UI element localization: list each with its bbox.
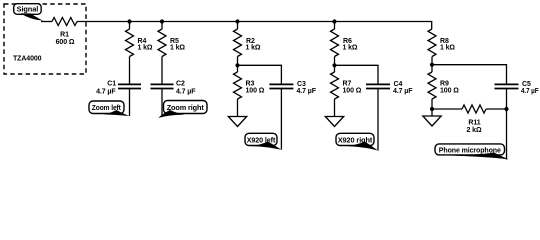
svg-text:600 Ω: 600 Ω <box>56 39 75 46</box>
svg-text:4.7 µF: 4.7 µF <box>176 89 196 96</box>
junction node on rail at R2 branch <box>235 19 239 23</box>
resistor R2 1 kOhm <box>234 29 261 57</box>
svg-text:100 Ω: 100 Ω <box>343 88 362 95</box>
junction node on rail at R6 branch <box>332 19 336 23</box>
wire: R2 to R3 junction <box>237 57 239 73</box>
node Zoom left (callout label) <box>89 101 130 116</box>
svg-text:4.7 µF: 4.7 µF <box>393 88 413 95</box>
resistor R1 600 ohm <box>52 18 77 47</box>
wire: R4 to C1 <box>129 57 131 85</box>
svg-text:Signal: Signal <box>17 5 39 14</box>
svg-text:100 Ω: 100 Ω <box>246 88 265 95</box>
wire: junction to C3 branch <box>238 65 282 84</box>
ground symbol below R9 <box>423 116 441 126</box>
node Zoom right (callout label) <box>158 101 207 118</box>
resistor R11 2 kOhm <box>462 105 486 134</box>
junction node R2/R3/C3 <box>235 63 239 67</box>
wire: rail to R5 <box>161 22 163 30</box>
junction node on rail at R4 branch <box>127 19 131 23</box>
wire: R9 to ground <box>431 99 433 117</box>
resistor R5 1 kOhm <box>158 29 185 57</box>
capacitor C3 4.7 uF <box>269 81 316 95</box>
svg-text:R9: R9 <box>440 81 449 88</box>
node X920 right (callout label) <box>336 133 378 150</box>
svg-text:1 kΩ: 1 kΩ <box>440 45 455 52</box>
svg-text:1 kΩ: 1 kΩ <box>246 45 261 52</box>
wire: R3 to ground <box>237 99 239 117</box>
svg-text:C3: C3 <box>297 81 306 88</box>
ground symbol below R7 <box>325 117 343 127</box>
wire: R9 junction to R11 <box>432 108 462 110</box>
resistor R3 100 Ohm <box>234 72 265 99</box>
svg-text:X920 right: X920 right <box>338 135 373 144</box>
svg-text:C2: C2 <box>176 80 185 87</box>
svg-text:2 kΩ: 2 kΩ <box>467 127 482 134</box>
svg-text:1 kΩ: 1 kΩ <box>343 45 358 52</box>
node Signal (callout label) <box>14 4 43 21</box>
wire: junction to C4 branch <box>335 65 379 84</box>
resistor R9 100 Ohm <box>428 72 459 99</box>
wire: top rail from R1 to R8 branch corner <box>77 22 432 30</box>
junction node R8/R9/C5 <box>430 63 434 67</box>
wire: R6 to R7 junction <box>334 57 336 73</box>
svg-text:TZA4000: TZA4000 <box>13 56 42 63</box>
wire: C5 down to Phone microphone terminal <box>506 89 508 160</box>
svg-text:R1: R1 <box>60 31 69 38</box>
svg-text:1 kΩ: 1 kΩ <box>170 45 185 52</box>
svg-text:100 Ω: 100 Ω <box>440 88 459 95</box>
wire: Signal tail to R1 <box>41 21 52 23</box>
svg-text:R3: R3 <box>246 81 255 88</box>
resistor R6 1 kOhm <box>331 29 358 57</box>
capacitor C1 4.7 uF <box>96 80 141 95</box>
capacitor C4 4.7 uF <box>366 81 413 95</box>
ground symbol below R3 <box>228 117 246 127</box>
resistor R7 100 Ohm <box>331 72 362 99</box>
svg-text:Zoom right: Zoom right <box>167 103 205 112</box>
wire: R5 to C2 <box>161 57 163 85</box>
wire: rail to R4 <box>129 22 131 30</box>
svg-text:4.7 µF: 4.7 µF <box>297 88 317 95</box>
junction node R6/R7/C4 <box>332 63 336 67</box>
svg-text:4.7 µF: 4.7 µF <box>521 88 539 95</box>
wire: junction to C5 branch <box>432 65 507 84</box>
svg-text:C4: C4 <box>394 81 403 88</box>
node X920 left (callout label) <box>245 133 282 150</box>
wire: C2 to Zoom right terminal <box>161 89 163 117</box>
svg-text:C1: C1 <box>107 80 116 87</box>
svg-text:1 kΩ: 1 kΩ <box>138 45 153 52</box>
junction node on rail at R5 branch <box>160 19 164 23</box>
svg-text:C5: C5 <box>522 81 531 88</box>
resistor R4 1 kOhm <box>126 29 153 57</box>
svg-text:R11: R11 <box>468 120 480 127</box>
resistor R8 1 kOhm <box>428 29 455 57</box>
wire: R11 to C5 branch <box>486 108 507 110</box>
junction node R11/C5 <box>504 107 508 111</box>
wire: R7 to ground <box>334 99 336 117</box>
svg-text:4.7 µF: 4.7 µF <box>96 89 116 96</box>
node Phone microphone (callout label) <box>435 144 509 159</box>
wire: C4 to X920 right terminal <box>377 89 379 151</box>
svg-text:R7: R7 <box>343 81 352 88</box>
junction node R9/R11/ground <box>430 107 434 111</box>
capacitor C2 4.7 uF <box>151 80 197 95</box>
wire: R8 to R9 junction <box>431 57 433 73</box>
wire: rail to R2 <box>237 22 239 30</box>
wire: C1 to Zoom left terminal <box>129 89 131 117</box>
IC boundary box TZA4000 <box>4 4 86 74</box>
wire: rail to R6 <box>334 22 336 30</box>
wire: C3 to X920 left terminal <box>280 89 282 150</box>
capacitor C5 4.7 uF <box>495 81 540 95</box>
svg-text:X920 left: X920 left <box>247 135 276 144</box>
